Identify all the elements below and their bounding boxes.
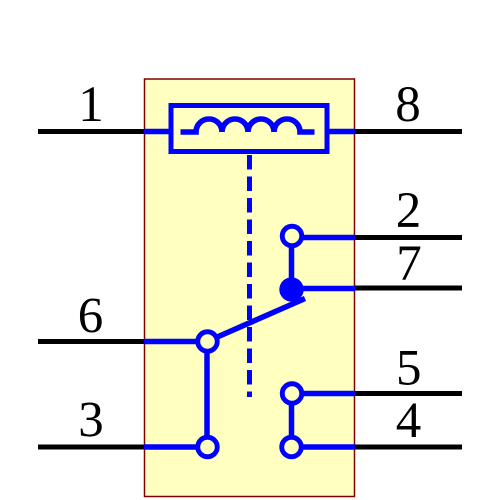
actuator dashed line (coil to switch arm) [247,155,252,397]
wire pin 1 stub (blue, body edge to coil box) [144,129,172,135]
wire pin 8 stub (blue, coil box to body edge) [327,129,355,135]
wire pin 5 (blue, contact to body edge) [292,391,355,397]
contact terminal pin 5 (open circle) [282,384,302,404]
switch arm (pin 6 common to pin 7 contact) [207,299,305,342]
coil box K1 [171,106,327,152]
contact terminal pin 6 (open circle) [198,332,218,352]
wire pin 1 (left, black) [38,129,145,134]
contact terminal pin 4 (open circle) [282,437,302,457]
svg-text:7: 7 [396,236,422,292]
wire pin 4 (blue, contact to body edge) [291,444,355,450]
svg-text:8: 8 [395,77,421,133]
svg-text:2: 2 [396,183,422,239]
contact terminal pin 3 (open circle) [198,437,218,457]
wire pin 6 (blue, body edge to common contact) [144,339,207,345]
wire pin 2 to pin 7 (blue vertical) [289,236,295,290]
wire pin 3 (blue, body edge to contact) [144,444,207,450]
contact terminal pin 2 (open circle) [282,226,302,246]
svg-text:5: 5 [396,340,422,396]
wire pin 7 (blue, junction to body edge) [292,286,356,292]
svg-text:4: 4 [396,393,422,449]
svg-text:1: 1 [78,77,104,133]
wire pin 5 to pin 4 (blue vertical) [289,394,295,448]
svg-text:6: 6 [78,288,104,344]
wire pin 6 to pin 3 (blue vertical) [204,342,210,448]
junction pin 7 (filled circle) [279,277,303,301]
inductor coil L1 [181,119,315,132]
wire pin 5 (right, black) [354,391,462,396]
wire pin 2 (right, black) [354,235,462,240]
wire pin 2 (blue, contact to body edge) [292,235,355,241]
wire pin 6 (left, black) [38,339,145,344]
wire pin 8 (right, black) [354,129,462,134]
wire pin 7 (right, black) [354,286,462,291]
wire pin 3 (left, black) [38,445,145,450]
svg-text:3: 3 [78,392,104,448]
relay body outline [145,79,355,497]
wire pin 4 (right, black) [354,445,462,450]
